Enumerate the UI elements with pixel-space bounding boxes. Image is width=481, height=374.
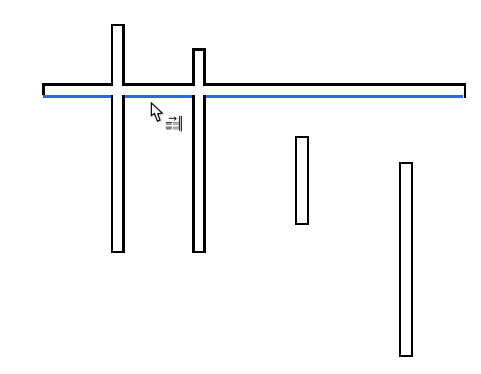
gray block 1 (173, 122, 179, 125)
wall W2 left edge upper segment (111, 24, 114, 86)
wall W1 selected blue bottom edge segment 3 (206, 95, 464, 98)
wall W5 vertical tall (right) outline (399, 162, 413, 357)
wall W1 horizontal top edge segment 1 (42, 83, 111, 86)
cursor badge icon (wall join / align indicator) (164, 114, 184, 133)
wall W3 right edge lower segment (203, 95, 206, 253)
wall W2 vertical (left, crossing) top edge (111, 24, 125, 27)
wall W1 horizontal top edge segment 3 (206, 83, 466, 86)
wall W3 vertical (second, crossing) top edge (192, 48, 206, 51)
arrow (169, 116, 177, 121)
wall W1 right end cap (464, 83, 467, 98)
wall W3 left edge upper segment (192, 48, 195, 86)
wall W3 left edge lower segment (192, 95, 195, 253)
dark list dashes (166, 122, 172, 128)
wall W2 right edge upper segment (122, 24, 125, 86)
wall W2 left edge lower segment (111, 95, 114, 253)
wall W2 bottom edge (111, 251, 125, 254)
wall W3 right edge upper segment (203, 48, 206, 86)
wall W4 vertical short (middle) outline (295, 136, 309, 226)
wall W1 horizontal top edge segment 2 (125, 83, 192, 86)
gray block 2 (173, 127, 179, 130)
double vertical bars (178, 116, 180, 131)
wall W3 bottom edge (192, 251, 206, 254)
wall W2 right edge lower segment (122, 95, 125, 253)
wall W1 selected blue bottom edge segment 2 (125, 95, 192, 98)
mouse cursor arrow with shadow (146, 99, 190, 139)
wall W1 left end cap (42, 83, 45, 95)
wall W1 selected blue bottom edge segment 1 (43, 95, 111, 98)
